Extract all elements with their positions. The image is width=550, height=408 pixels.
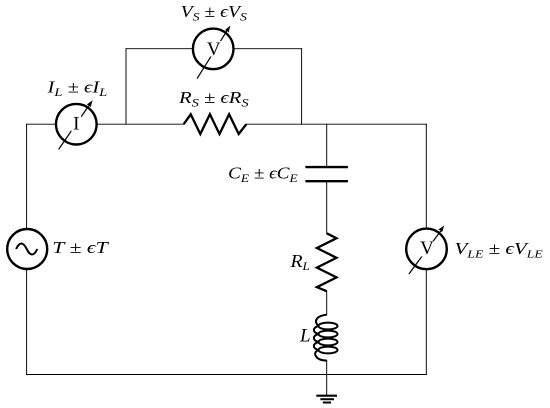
capacitor C_E top plate [305,166,348,168]
wire left rail upper (corner to source T) [26,124,28,229]
voltmeter V_S letter backing [206,41,221,57]
svg-text:T ± ϵT: T ± ϵT [52,238,109,257]
svg-text:I: I [73,114,79,135]
voltmeter V_LE needle arrowhead [438,226,444,233]
ammeter I1 circle [56,104,97,145]
voltmeter V_S needle arrowhead [225,26,231,33]
svg-text:V: V [207,39,221,60]
voltmeter V_LE needle [409,230,442,274]
wire R_L to L [326,291,328,315]
wire C_E to R_L [326,182,328,233]
capacitor C_E bottom plate [305,180,348,182]
wire bottom rail [27,374,427,376]
resistor R_L zigzag [317,233,337,291]
inductor L coil [314,315,338,361]
wire left rail lower (source T to bottom rail) [26,269,28,374]
wire top rail right segment (R_S to right corner) [246,123,426,125]
svg-text:VS ± ϵVS: VS ± ϵVS [181,2,247,24]
wire top rail left segment [27,123,55,125]
voltmeter V_S circle [193,29,234,70]
svg-text:CE ± ϵCE: CE ± ϵCE [228,164,298,186]
svg-text:V: V [420,238,434,259]
svg-text:L: L [299,325,311,346]
wire voltmeter V_S branch right vertical [301,49,303,125]
wire capacitor branch upper (rail to C_E) [326,124,328,166]
ammeter I1 needle [59,104,90,149]
wire voltmeter V_S branch left vertical [125,49,127,125]
voltmeter V_LE circle [406,229,447,270]
wire voltmeter V_S branch top left horizontal [126,48,192,50]
ground symbol [316,396,337,403]
wire L to bottom rail [326,361,328,375]
wire voltmeter V_S branch top right horizontal [235,48,302,50]
voltmeter V_LE letter backing [420,241,435,257]
svg-text:RS ± ϵRS: RS ± ϵRS [178,88,249,110]
source T sine wave [16,244,37,255]
wire right rail lower (voltmeter V_LE to bottom rail) [425,270,427,374]
voltmeter V_S needle [197,30,227,79]
ammeter I1 needle arrowhead [87,100,93,107]
wire right rail upper (corner to voltmeter V_LE) [425,124,427,227]
wire ground stub [326,375,328,396]
ammeter I1 letter backing [71,116,81,132]
wire top rail middle segment (ammeter to R_S) [98,123,184,125]
resistor R_S zigzag [184,114,247,134]
source T circle [7,229,47,269]
